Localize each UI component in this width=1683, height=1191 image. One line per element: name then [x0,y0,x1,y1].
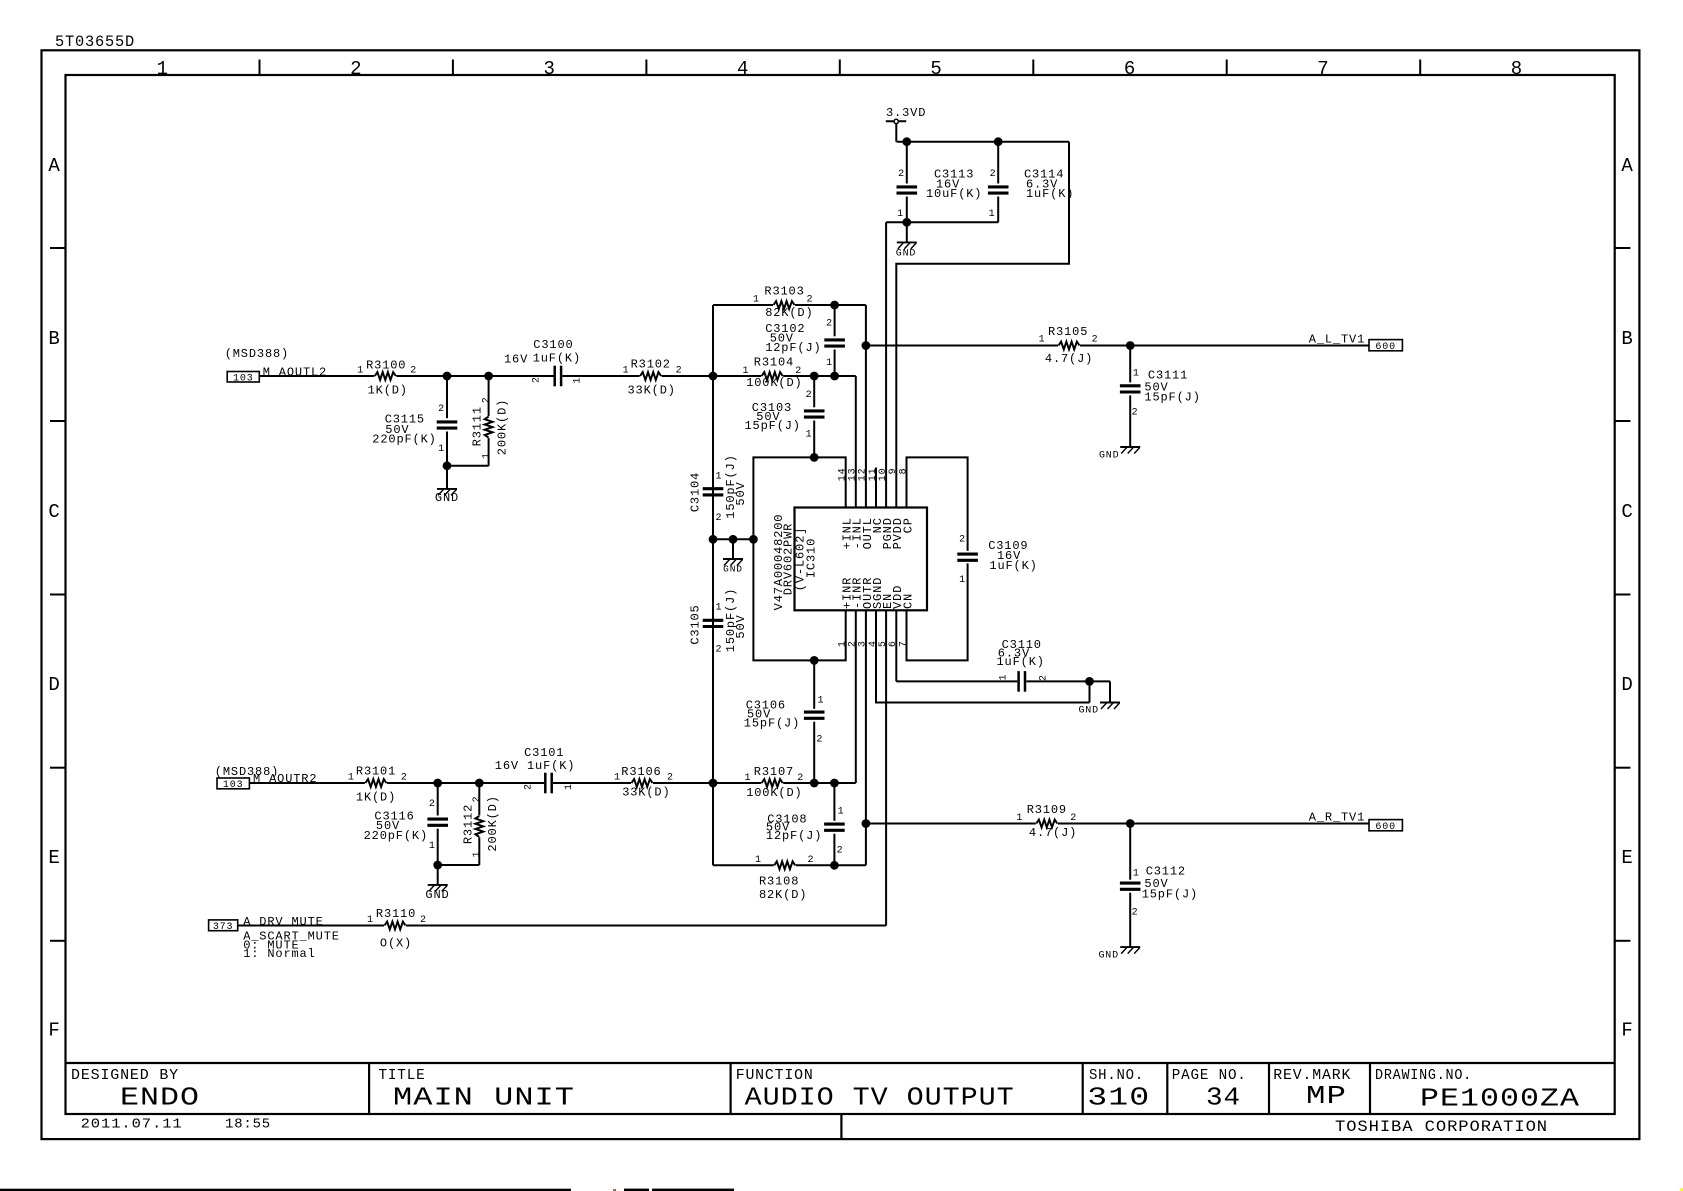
svg-text:C3101: C3101 [524,746,564,760]
junction C3113 pin1 node [902,218,911,227]
svg-text:C: C [48,501,60,523]
resistor R3102 [623,358,683,398]
capacitor C3113 [897,142,983,223]
svg-text:600: 600 [1375,342,1396,353]
wire A_DRV_MUTE to EN [238,925,384,927]
svg-text:15pF(J): 15pF(J) [744,717,800,731]
junction C3116 bottom [433,861,442,870]
svg-text:103: 103 [233,374,254,385]
op-amp U IC310 DRV602PWR [772,508,927,611]
junction C3106 bottom [810,779,819,788]
wire SGND pin 4 path [876,610,1090,702]
wire OUTL to A_L_TV1 [866,345,1058,347]
svg-text:1K(D): 1K(D) [368,384,408,398]
svg-text:R3112: R3112 [461,804,475,844]
svg-text:C: C [1621,501,1633,523]
svg-text:A_DRV_MUTE: A_DRV_MUTE [243,915,324,929]
svg-text:PE1000ZA: PE1000ZA [1420,1084,1580,1114]
svg-text:4.7(J): 4.7(J) [1045,352,1093,366]
svg-text:2: 2 [1132,408,1139,419]
junction GND stub node [729,535,738,544]
svg-text:1: 1 [959,575,966,586]
svg-text:R3101: R3101 [356,765,396,779]
resistor R3106 [614,765,674,800]
svg-text:1: 1 [564,783,575,790]
svg-text:TOSHIBA CORPORATION: TOSHIBA CORPORATION [1335,1118,1548,1136]
capacitor C3112 [1120,824,1198,948]
svg-text:33K(D): 33K(D) [622,786,670,800]
junction C3106 top on box bottom [810,656,819,665]
svg-text:15pF(J): 15pF(J) [1144,390,1200,404]
svg-text:1uF(K): 1uF(K) [1026,187,1074,201]
pin 7 CN label [898,593,915,647]
pin 12 OUTL label [858,468,875,550]
svg-text:A_R_TV1: A_R_TV1 [1309,811,1365,825]
svg-text:8: 8 [898,468,909,475]
power 3.3VD [886,106,926,142]
svg-text:4.7(J): 4.7(J) [1029,826,1077,840]
svg-text:2: 2 [1070,813,1077,824]
svg-text:A: A [1621,155,1633,177]
node A_L_TV1 connector 600 [1309,333,1403,353]
svg-text:12pF(J): 12pF(J) [766,829,822,843]
svg-text:2: 2 [420,915,427,926]
svg-text:82K(D): 82K(D) [759,888,807,902]
svg-text:2: 2 [350,58,362,80]
svg-text:2: 2 [716,513,723,524]
svg-text:2: 2 [410,366,417,377]
svg-text:3: 3 [543,58,555,80]
ground GND at bias node [723,539,743,574]
resistor R3105 [1039,325,1099,366]
svg-text:2: 2 [524,783,535,790]
ground GND at SGND/C3110 [1078,703,1120,717]
svg-text:5: 5 [930,58,942,80]
svg-text:1: 1 [806,430,813,441]
svg-text:2: 2 [826,319,833,330]
svg-text:GND: GND [723,563,743,574]
svg-text:F: F [1621,1020,1633,1042]
pin 11 NC label [868,468,885,534]
svg-text:1: 1 [1133,369,1140,380]
junction R3111 top [484,372,493,381]
resistor R3108 [755,855,814,902]
wire M_AOUTL2 to +INL (pin 14 path) [259,375,374,377]
junction at box left edge [749,535,758,544]
svg-text:R3108: R3108 [759,875,799,889]
wire C3116/R3112 bottoms [438,864,480,866]
svg-text:R3110: R3110 [376,907,416,921]
ground GND below C3112 [1098,947,1140,961]
resistor R3100 [357,359,417,398]
svg-text:1: 1 [481,452,492,459]
junction C3103 bottom on box top [810,453,819,462]
wire left feedback vertical [712,305,714,865]
wire OUTR to A_R_TV1 [866,823,1036,825]
svg-text:GND: GND [1099,451,1120,462]
svg-text:M_AOUTL2: M_AOUTL2 [263,366,327,380]
resistor R3109 [1016,803,1077,840]
capacitor C3110 [997,638,1050,692]
svg-text:8: 8 [1511,58,1523,80]
wire OUTR pin 3 vertical [865,610,867,865]
resistor R3103 [753,285,814,321]
wire SGND tie [1089,681,1091,702]
svg-text:2: 2 [959,535,966,546]
capacitor C3115 [372,376,457,466]
junction OUTL branch [862,341,871,350]
svg-text:15pF(J): 15pF(J) [1142,888,1198,902]
resistor R3111 [471,376,510,466]
svg-text:C3100: C3100 [533,338,573,352]
svg-text:1K(D): 1K(D) [356,791,396,805]
svg-text:2: 2 [481,396,492,403]
svg-text:2: 2 [808,855,815,866]
svg-text:D: D [48,674,60,696]
pin 3 OUTR label [858,577,875,647]
svg-text:TITLE: TITLE [379,1067,426,1084]
ground GND below C3113 [896,222,917,259]
svg-text:1: 1 [1016,813,1023,824]
svg-text:1: 1 [753,295,760,306]
svg-text:1: 1 [989,209,996,220]
pin 9 PVDD label [888,468,905,550]
svg-text:2: 2 [816,735,823,746]
svg-text:1: 1 [348,773,355,784]
wire VDD pin 6 path [895,610,897,681]
junction C3115 top [443,372,452,381]
wire bias node to IC box [713,538,753,540]
svg-text:DRAWING.NO.: DRAWING.NO. [1375,1067,1472,1084]
svg-text:2: 2 [667,773,674,784]
wire PVDD feed to pin 9 [896,142,1069,508]
pin 13 -INL label [848,468,865,550]
svg-text:1: 1 [573,377,584,384]
junction C3108 top [830,779,839,788]
svg-text:A_L_TV1: A_L_TV1 [1309,333,1365,347]
svg-text:1: 1 [826,358,833,369]
ground GND below C3111 [1099,447,1140,462]
svg-text:82K(D): 82K(D) [765,306,813,320]
svg-text:2: 2 [532,376,543,383]
svg-text:2: 2 [806,390,813,401]
junction C3103 top [810,372,819,381]
svg-text:E: E [48,847,60,869]
svg-text:1uF(K): 1uF(K) [533,352,581,366]
svg-text:220pF(K): 220pF(K) [364,829,428,843]
wire NC pin 11 stub [875,468,877,508]
svg-text:ENDO: ENDO [120,1083,200,1113]
svg-text:2: 2 [676,366,683,377]
svg-text:B: B [48,328,60,350]
svg-text:GND: GND [435,491,459,505]
svg-text:GND: GND [896,249,917,260]
svg-text:1uF(K): 1uF(K) [997,655,1045,669]
pin 5 EN label [878,593,895,647]
capacitor C3102 [765,305,845,376]
junction OUTR branch [862,819,871,828]
svg-text:2: 2 [401,773,408,784]
svg-text:600: 600 [1375,822,1396,833]
capacitor C3105 [689,539,749,783]
node M_AOUTL2 connector 103 [225,347,327,385]
svg-text:R3100: R3100 [366,359,406,373]
svg-text:5T03655D: 5T03655D [55,33,135,51]
resistor R3110 [367,907,427,951]
junction C3113 pin2 node [902,137,911,146]
svg-text:F: F [48,1020,60,1042]
svg-text:1: 1 [716,472,723,483]
capacitor C3109 [957,535,1037,587]
svg-text:1: 1 [818,696,825,707]
junction R3112 top [475,779,484,788]
capacitor C3106 [744,660,825,783]
wire M_AOUTR2 to -INR (pin 2 path) [249,782,365,784]
svg-text:1: 1 [367,915,374,926]
resistor R3104 [743,356,803,390]
svg-text:18:55: 18:55 [225,1117,271,1133]
svg-text:R3103: R3103 [764,285,804,299]
pin 8 CP label [898,468,915,534]
svg-text:200K(D): 200K(D) [486,795,500,851]
svg-text:R3106: R3106 [621,765,661,779]
svg-text:100K(D): 100K(D) [746,376,802,390]
svg-text:2: 2 [429,799,436,810]
svg-text:A: A [48,155,60,177]
svg-text:2: 2 [472,796,483,803]
svg-text:10uF(K): 10uF(K) [926,187,982,201]
svg-text:MP: MP [1306,1081,1347,1111]
svg-text:GND: GND [425,888,449,902]
svg-text:2: 2 [438,404,445,415]
svg-text:AUDIO TV OUTPUT: AUDIO TV OUTPUT [745,1083,1015,1113]
junction input node at left vertical [709,372,718,381]
capacitor C3111 [1120,346,1201,448]
svg-text:16V 1uF(K): 16V 1uF(K) [495,759,576,773]
svg-text:2: 2 [1092,335,1099,346]
capacitor C3104 [689,376,749,539]
svg-text:R3102: R3102 [631,358,671,372]
svg-text:GND: GND [1078,706,1099,717]
node A_R_TV1 connector 600 [1309,811,1403,833]
svg-text:310: 310 [1087,1083,1150,1113]
svg-text:1: 1 [897,209,904,220]
svg-text:C3105: C3105 [689,604,703,644]
svg-text:1: 1 [157,58,169,80]
wire R3108 feedback bottom [713,864,774,866]
svg-text:R3107: R3107 [754,765,794,779]
svg-text:1uF(K): 1uF(K) [989,559,1037,573]
svg-text:50V: 50V [734,614,748,638]
svg-text:(MSD388): (MSD388) [225,347,289,361]
ground GND below C3116 [425,865,449,902]
svg-text:6: 6 [1124,58,1136,80]
svg-text:33K(D): 33K(D) [628,384,676,398]
svg-text:1: Normal: 1: Normal [243,947,315,961]
svg-text:373: 373 [213,922,234,933]
capacitor C3101 [495,746,576,793]
svg-text:1: 1 [438,444,445,455]
junction C3116 top [433,779,442,788]
svg-text:1: 1 [716,603,723,614]
svg-text:GND: GND [1098,951,1119,962]
svg-text:3.3VD: 3.3VD [886,106,926,120]
wire OUTL pin 12 vertical [865,305,867,508]
svg-text:1: 1 [838,807,845,818]
svg-text:R3105: R3105 [1048,325,1088,339]
svg-text:16V: 16V [504,353,528,367]
wire C3115/R3111 bottoms [447,465,489,467]
capacitor C3103 [745,376,825,457]
svg-text:15pF(J): 15pF(J) [745,419,801,433]
node M_AOUTR2 connector 103 [215,765,318,791]
svg-text:1: 1 [614,773,621,784]
svg-text:1: 1 [623,366,630,377]
svg-text:PAGE NO.: PAGE NO. [1172,1067,1247,1084]
node A_DRV_MUTE connector 373 [209,915,340,961]
svg-text:R3104: R3104 [754,356,794,370]
svg-text:2: 2 [1132,908,1139,919]
svg-text:1: 1 [472,851,483,858]
svg-text:34: 34 [1206,1083,1241,1113]
resistor R3107 [745,765,805,800]
svg-text:2: 2 [807,295,814,306]
wire 3.3VD bus [897,141,1069,143]
pin 4 SGND label [868,577,885,647]
svg-text:1: 1 [755,855,762,866]
svg-text:50V: 50V [734,481,748,505]
pin 14 +INL label [838,468,855,550]
wire R3103 feedback top [713,304,773,306]
wire -INR pin 2 vertical [855,610,857,783]
wire PGND drop to pin 10 [885,222,887,507]
svg-text:FUNCTION: FUNCTION [736,1067,814,1084]
wire C3113/C3114 ground bus [886,221,998,223]
pin 2 -INR label [848,577,865,647]
pin 10 PGND label [878,468,895,550]
svg-text:CN: CN [901,593,915,609]
svg-text:2011.07.11: 2011.07.11 [81,1117,183,1133]
svg-text:B: B [1621,328,1633,350]
junction C3115 bottom [443,461,452,470]
capacitor C3114 [988,142,1074,223]
pin 1 +INR label [838,577,855,647]
svg-text:IC310: IC310 [805,538,819,578]
junction C3108 bottom [830,861,839,870]
svg-text:DESIGNED BY: DESIGNED BY [71,1067,179,1084]
svg-text:100K(D): 100K(D) [746,786,802,800]
svg-text:1: 1 [999,674,1010,681]
svg-text:2: 2 [837,846,844,857]
wire EN pin 5 vertical [885,610,887,925]
svg-text:1: 1 [1039,335,1046,346]
pin 6 VDD label [888,585,905,647]
junction C3114 pin2 node [994,137,1003,146]
wire +INL/+INR bias loop (left box) [753,457,845,660]
wire CP/CN charge pump loop (right box) [907,457,968,551]
junction C3102 top [830,301,839,310]
ground GND below C3115 [435,466,459,505]
svg-text:220pF(K): 220pF(K) [372,433,436,447]
svg-text:2: 2 [898,169,905,180]
svg-text:D: D [1621,674,1633,696]
svg-text:103: 103 [223,780,244,791]
junction C3102 bottom [830,372,839,381]
junction C3104/C3105 node [709,535,718,544]
resistor R3101 [348,765,408,805]
svg-text:2: 2 [1039,674,1050,681]
junction C3111 top [1126,341,1135,350]
svg-text:7: 7 [898,640,909,647]
svg-text:1: 1 [357,366,364,377]
capacitor C3100 [504,338,584,386]
svg-text:C3104: C3104 [689,472,703,512]
capacitor C3116 [364,783,448,865]
svg-text:MAIN UNIT: MAIN UNIT [393,1083,575,1113]
junction R3107 left / left vertical [709,779,718,788]
svg-text:CP: CP [901,517,915,533]
svg-text:1: 1 [429,841,436,852]
capacitor C3108 [766,783,845,865]
svg-text:E: E [1621,847,1633,869]
svg-text:2: 2 [990,169,997,180]
resistor R3112 [461,783,500,865]
svg-text:4: 4 [737,58,749,80]
svg-text:200K(D): 200K(D) [496,399,510,455]
svg-text:1: 1 [1133,869,1140,880]
svg-text:12pF(J): 12pF(J) [765,341,821,355]
svg-text:O(X): O(X) [380,937,412,951]
svg-text:SH.NO.: SH.NO. [1089,1067,1144,1084]
junction VDD decoupling to ground [1085,677,1094,686]
svg-text:2: 2 [716,645,723,656]
svg-text:R3109: R3109 [1027,803,1067,817]
svg-text:R3111: R3111 [471,406,485,446]
junction C3112 top [1126,819,1135,828]
svg-text:7: 7 [1317,58,1329,80]
